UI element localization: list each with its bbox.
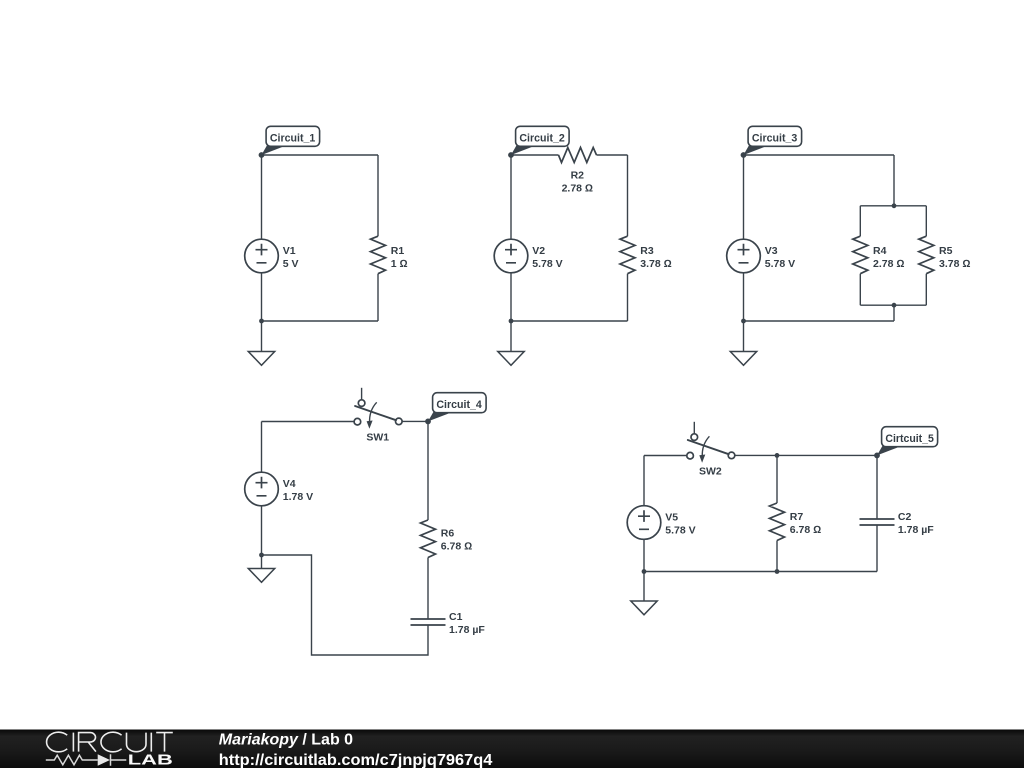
svg-text:5.78 V: 5.78 V <box>665 525 695 537</box>
wire: C2 bottom lead <box>876 525 878 572</box>
wire: R5 bottom lead <box>925 274 927 306</box>
svg-text:R2: R2 <box>571 170 585 182</box>
wire: R7 bottom lead <box>776 541 778 572</box>
wire: V2 bottom lead <box>510 273 512 321</box>
svg-text:3.78 Ω: 3.78 Ω <box>640 258 671 270</box>
node junction at V2 negative / ground <box>509 319 514 324</box>
wire: V5 top lead <box>643 456 645 506</box>
svg-text:3.78 Ω: 3.78 Ω <box>939 258 970 270</box>
svg-text:R7: R7 <box>790 511 804 523</box>
svg-text:Circuit_4: Circuit_4 <box>436 399 482 411</box>
wire: bottom rail circuit 1 <box>262 320 379 322</box>
node junction bottom of parallel pair <box>892 303 897 308</box>
CircuitLab logo: CIRCUIT wordmark <box>47 732 173 752</box>
wire: V3 bottom lead <box>743 273 745 321</box>
svg-text:R5: R5 <box>939 245 953 257</box>
wire: SW2 right terminal to C2 node <box>735 454 877 456</box>
wire: parallel top rail <box>860 205 926 207</box>
wire: top rail circuit 1 <box>262 154 379 156</box>
ground <box>248 555 274 582</box>
wire: C1 bottom return path <box>262 555 429 655</box>
voltage source V4 <box>245 472 313 506</box>
svg-text:http://circuitlab.com/c7jnpjq7: http://circuitlab.com/c7jnpjq7967q4 <box>219 752 493 768</box>
switch SW2 <box>687 422 735 478</box>
wire: R3 bottom lead <box>627 274 629 321</box>
wire: V3 top lead <box>743 155 745 239</box>
wire: bottom rail circuit 5 <box>644 571 877 573</box>
voltage source V1 <box>245 239 299 273</box>
svg-text:2.78 Ω: 2.78 Ω <box>562 183 593 195</box>
wire: V4 top lead <box>261 422 263 473</box>
node junction at V5 negative / ground <box>642 569 647 574</box>
wire: V2 top lead <box>510 155 512 239</box>
wire: node down to R6 <box>427 421 429 520</box>
wire: R6 to C1 <box>427 558 429 620</box>
svg-text:1.78 µF: 1.78 µF <box>898 524 934 536</box>
CircuitLab logo: diode triangle <box>98 754 110 765</box>
node name label Cirtcuit_5 <box>874 427 938 459</box>
wire: top rail left of R2 <box>511 154 559 156</box>
resistor R5 <box>919 236 971 274</box>
resistor R7 <box>770 503 822 541</box>
node junction at V1 negative / ground <box>259 319 264 324</box>
ground <box>498 321 524 365</box>
wire: V5 to SW2 left terminal <box>644 455 687 457</box>
ground <box>631 572 657 615</box>
voltage source V2 <box>494 239 562 273</box>
svg-text:R3: R3 <box>640 245 654 257</box>
svg-text:Circuit_1: Circuit_1 <box>270 133 315 145</box>
svg-text:V2: V2 <box>532 245 545 257</box>
node junction at R7 bottom <box>775 569 780 574</box>
wire: bottom rail circuit 2 <box>511 320 628 322</box>
wire: rise from parallel pair <box>893 305 895 321</box>
capacitor C2 <box>860 511 935 536</box>
svg-text:1.78 µF: 1.78 µF <box>449 624 485 636</box>
wire: V4 bottom lead <box>261 506 263 555</box>
svg-text:1.78 V: 1.78 V <box>283 491 313 503</box>
svg-text:V3: V3 <box>765 245 778 257</box>
wire: parallel bottom rail <box>860 304 926 306</box>
footer bar <box>0 730 1024 768</box>
wire: C2 top lead <box>876 455 878 519</box>
svg-text:5.78 V: 5.78 V <box>765 258 795 270</box>
node name label Circuit_2 <box>508 126 569 158</box>
capacitor C1 <box>411 611 486 636</box>
svg-text:5 V: 5 V <box>283 258 299 270</box>
wire: V5 bottom lead <box>643 539 645 571</box>
CircuitLab logo: resistor-diode symbol <box>46 754 127 765</box>
svg-text:R4: R4 <box>873 245 887 257</box>
svg-text:Mariakopy / Lab 0: Mariakopy / Lab 0 <box>219 731 353 748</box>
wire: R3 top lead <box>627 155 629 236</box>
wire: R4 bottom lead <box>859 274 861 306</box>
wire: V4 to SW1 left terminal <box>262 421 355 423</box>
node junction at R7 top branch <box>775 453 780 458</box>
svg-text:5.78 V: 5.78 V <box>532 258 562 270</box>
switch SW1 <box>354 388 402 444</box>
wire: R7 top lead <box>776 455 778 503</box>
wire: bottom rail circuit 3 <box>744 320 895 322</box>
wire: drop to parallel pair <box>893 155 895 206</box>
svg-text:SW1: SW1 <box>366 432 389 444</box>
voltage source V5 <box>627 506 695 540</box>
node junction top of parallel pair <box>892 203 897 208</box>
node name label Circuit_4 <box>425 393 486 425</box>
svg-text:V4: V4 <box>283 478 296 490</box>
svg-text:R1: R1 <box>391 245 405 257</box>
svg-text:LAB: LAB <box>128 753 173 768</box>
wire: top rail circuit 3 <box>744 154 895 156</box>
ground <box>730 321 756 365</box>
svg-text:V5: V5 <box>665 512 678 524</box>
svg-text:C2: C2 <box>898 511 912 523</box>
svg-text:6.78 Ω: 6.78 Ω <box>441 541 472 553</box>
wire: top rail right of R2 <box>597 154 628 156</box>
svg-text:SW2: SW2 <box>699 466 722 478</box>
resistor R4 <box>853 236 905 274</box>
svg-text:V1: V1 <box>283 245 296 257</box>
svg-text:Cirtcuit_5: Cirtcuit_5 <box>885 433 934 445</box>
wire: R5 top lead <box>925 206 927 236</box>
resistor R3 <box>620 236 672 274</box>
voltage source V3 <box>727 239 795 273</box>
resistor R1 <box>371 236 408 274</box>
svg-text:1 Ω: 1 Ω <box>391 258 408 270</box>
wire: R4 top lead <box>859 206 861 236</box>
svg-text:6.78 Ω: 6.78 Ω <box>790 524 821 536</box>
node junction at V4 negative / ground <box>259 553 264 558</box>
svg-text:2.78 Ω: 2.78 Ω <box>873 258 904 270</box>
wire: V1 bottom lead <box>261 273 263 321</box>
svg-text:Circuit_2: Circuit_2 <box>519 133 564 145</box>
ground <box>248 321 274 365</box>
resistor R2 <box>559 148 597 195</box>
resistor R6 <box>421 520 473 558</box>
svg-text:C1: C1 <box>449 611 463 623</box>
svg-text:Circuit_3: Circuit_3 <box>752 133 797 145</box>
node junction at V3 negative / ground <box>741 319 746 324</box>
wire: R1 top lead <box>377 155 379 236</box>
wire: V1 top lead <box>261 155 263 239</box>
wire: SW1 right terminal to node <box>402 420 428 422</box>
node name label Circuit_3 <box>741 126 802 158</box>
wire: R1 bottom lead <box>377 274 379 321</box>
node name label Circuit_1 <box>259 126 320 158</box>
svg-text:R6: R6 <box>441 528 455 540</box>
